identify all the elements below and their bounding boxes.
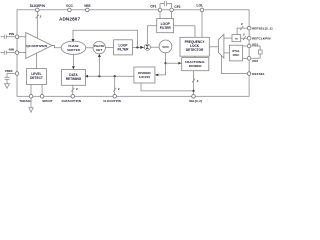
node junction phase det clock bbox=[98, 75, 100, 77]
svg-text:REFSEL: REFSEL bbox=[252, 72, 265, 76]
svg-text:RETIMING: RETIMING bbox=[66, 77, 82, 81]
wire feedback to phase shifter bbox=[73, 30, 137, 47]
svg-text:VREF: VREF bbox=[5, 69, 13, 73]
wire phase det to loop filter bbox=[105, 47, 113, 49]
pin CLKOUTP/N bbox=[113, 95, 117, 99]
wire div n to mux bbox=[224, 37, 232, 39]
wire THRADJ external arrow bbox=[30, 98, 32, 108]
svg-text:DETECTOR: DETECTOR bbox=[186, 48, 204, 52]
wire loop filter pll to freq lock det bbox=[174, 26, 195, 38]
chip border ADN2807 bbox=[17, 10, 249, 97]
block FREQUENCY LOCK DETECTOR bbox=[180, 37, 209, 56]
svg-text:VCO: VCO bbox=[162, 45, 169, 49]
svg-text:SHIFTER: SHIFTER bbox=[67, 48, 81, 52]
svg-text:THRADJ: THRADJ bbox=[19, 99, 31, 103]
pin DATAOUTP/N bbox=[71, 95, 75, 99]
pin VREF bbox=[15, 72, 19, 76]
wire refclk to div n bbox=[241, 37, 248, 39]
wire phase shifter to phase det bbox=[86, 47, 93, 49]
svg-text:ADN2807: ADN2807 bbox=[59, 17, 81, 22]
wire LOL to freq lock det bbox=[201, 12, 203, 38]
phase shifter bbox=[61, 41, 86, 54]
phase det bbox=[93, 41, 105, 53]
block LEVEL DETECT bbox=[27, 69, 47, 85]
block DATA RETIMING bbox=[62, 70, 86, 86]
svg-text:DIVIDER: DIVIDER bbox=[189, 64, 202, 68]
pin PIN bbox=[15, 35, 19, 39]
pin LOL bbox=[200, 8, 204, 12]
pin CF1 bbox=[158, 8, 162, 12]
svg-text:REFCLKP/N: REFCLKP/N bbox=[252, 37, 271, 41]
bus slash 2 refsel01 bbox=[240, 26, 243, 30]
block FRACTIONAL DIVIDER bbox=[182, 58, 209, 71]
svg-text:/n: /n bbox=[235, 37, 238, 41]
wire sigma to vco bbox=[151, 46, 160, 48]
wire freq lock det to fractional divider bbox=[194, 56, 196, 57]
svg-text:CLKOUTP/N: CLKOUTP/N bbox=[103, 99, 121, 103]
pin REFCLKP/N bbox=[247, 36, 251, 40]
capacitor CF external bbox=[160, 1, 172, 8]
wire slice input bbox=[36, 12, 38, 39]
pin XO2 bbox=[247, 57, 251, 61]
wire vco down bbox=[165, 53, 167, 63]
wire loop filter to sigma bbox=[132, 46, 140, 48]
wire phase shifter to data retiming bbox=[72, 55, 74, 67]
svg-text:FILTER: FILTER bbox=[118, 48, 130, 52]
svg-text:1/2/4/16: 1/2/4/16 bbox=[139, 75, 150, 79]
wire pll loop filter to sigma bbox=[147, 26, 156, 44]
block LOOP FILTER (DLL) bbox=[114, 40, 133, 55]
pin SLICEP/N bbox=[36, 8, 40, 12]
pin XO1 bbox=[247, 44, 251, 48]
wire dataout bbox=[72, 85, 74, 94]
bus slash 2 refclk bbox=[243, 36, 246, 40]
bus slash 2 slice bbox=[36, 15, 39, 19]
svg-text:SLICEP/N: SLICEP/N bbox=[30, 4, 46, 8]
wire divider to data retiming bbox=[88, 75, 134, 77]
bus slash 3 sel bbox=[192, 79, 195, 83]
wire level detect to SDOUT bbox=[41, 85, 43, 95]
capacitor input PIN bbox=[1, 35, 15, 39]
wire refsel01 bbox=[237, 28, 248, 34]
mux reference bbox=[218, 34, 224, 58]
pin SEL bbox=[192, 95, 196, 99]
quantizer amp bbox=[26, 33, 52, 59]
svg-text:CF1: CF1 bbox=[150, 5, 156, 9]
bus slash 2 clkout bbox=[113, 88, 116, 92]
pin CF2 bbox=[170, 8, 174, 12]
svg-text:LOL: LOL bbox=[197, 4, 204, 8]
wire NIN to quantizer bbox=[18, 52, 25, 54]
wire xtal to XO2 bbox=[243, 57, 248, 59]
wire CF2 to loop filter bbox=[171, 12, 173, 19]
svg-text:OSC: OSC bbox=[233, 53, 240, 57]
block LOOP FILTER (PLL) bbox=[157, 19, 174, 33]
capacitor VREF bypass bbox=[5, 74, 15, 84]
pin VCC bbox=[68, 8, 72, 12]
svg-text:VEE: VEE bbox=[84, 4, 91, 8]
wire level detect to THRADJ bbox=[30, 85, 32, 95]
svg-text:SEL[0..2]: SEL[0..2] bbox=[189, 99, 202, 103]
pin NIN bbox=[15, 51, 19, 55]
wire clock down to divider bbox=[158, 63, 165, 75]
svg-text:CF2: CF2 bbox=[174, 5, 180, 9]
crystal external bbox=[251, 46, 260, 58]
svg-text:DET: DET bbox=[96, 48, 102, 52]
capacitor input NIN bbox=[1, 51, 15, 55]
wire CF1 to loop filter bbox=[159, 12, 161, 19]
wire xtal to XO1 bbox=[243, 45, 248, 47]
ground VREF bbox=[5, 84, 10, 89]
svg-text:DETECT: DETECT bbox=[30, 76, 43, 80]
svg-text:VCC: VCC bbox=[66, 4, 74, 8]
bus slash 2 dataout bbox=[71, 88, 74, 92]
summer sigma bbox=[144, 44, 150, 50]
svg-text:QUANTIZER: QUANTIZER bbox=[26, 44, 47, 48]
node junction feedback bbox=[136, 46, 138, 48]
wire quantizer out bbox=[52, 46, 61, 48]
node junction sel bbox=[192, 90, 194, 92]
wire vco to fractional divider bbox=[166, 62, 179, 64]
node junction clkout bbox=[114, 75, 116, 77]
svg-text:PIN: PIN bbox=[9, 32, 15, 36]
wire clkout bbox=[114, 76, 116, 94]
wire divider select bbox=[141, 83, 194, 91]
pin THRADJ bbox=[29, 95, 33, 99]
svg-text:XO2: XO2 bbox=[252, 59, 258, 63]
wire PIN to quantizer bbox=[18, 36, 25, 38]
block DIVIDER bbox=[134, 67, 155, 83]
node junction vco clock bbox=[164, 62, 166, 64]
pin REFSEL[0..1] bbox=[247, 26, 251, 30]
svg-text:NIN: NIN bbox=[9, 48, 15, 52]
block XTAL OSC bbox=[229, 45, 242, 61]
wire refsel to mux bbox=[222, 56, 248, 74]
svg-text:FILTER: FILTER bbox=[160, 26, 172, 30]
svg-text:DATAOUTP/N: DATAOUTP/N bbox=[62, 99, 81, 103]
pin VEE bbox=[86, 8, 90, 12]
svg-text:REFSEL[0..1]: REFSEL[0..1] bbox=[252, 27, 272, 31]
wire freq lock det to mux bbox=[209, 46, 218, 48]
wire xtal to mux bbox=[224, 52, 230, 54]
pin SDOUT bbox=[40, 95, 44, 99]
wire quantizer to level detect bbox=[36, 53, 38, 69]
block divide by n bbox=[232, 35, 241, 42]
svg-text:SDOUT: SDOUT bbox=[42, 99, 53, 103]
pin REFSEL bbox=[247, 72, 251, 76]
vco bbox=[159, 40, 172, 53]
wire fractional divider to sel bbox=[193, 71, 195, 95]
svg-text:Σ: Σ bbox=[146, 45, 149, 51]
wire clock to phase det bbox=[98, 57, 100, 76]
